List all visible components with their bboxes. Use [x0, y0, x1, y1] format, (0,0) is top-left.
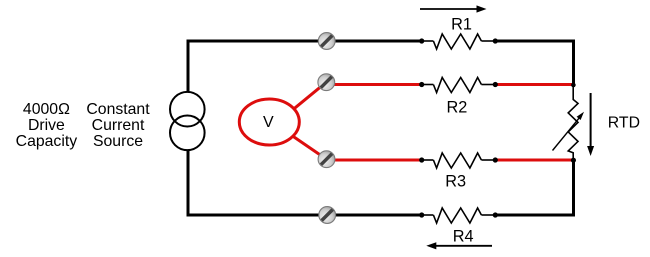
- RTD variable-arrow: [553, 112, 585, 151]
- voltmeter V1: [239, 99, 299, 145]
- terminal 3 (screw): [318, 151, 335, 168]
- svg-text:Drive: Drive: [28, 117, 65, 134]
- junction dot node top of RTD: [571, 83, 576, 88]
- terminal 4 (screw): [319, 207, 336, 224]
- current direction arrow bottom (below R4): [426, 242, 492, 249]
- wire red sense lead from V+ to terminal 2: [294, 82, 326, 109]
- svg-text:Source: Source: [93, 133, 143, 150]
- svg-text:R1: R1: [451, 16, 472, 34]
- resistor R1: [419, 34, 498, 49]
- svg-text:R4: R4: [453, 227, 474, 245]
- svg-text:Capacity: Capacity: [16, 133, 78, 150]
- label 4000ohm drive capacity: [16, 101, 78, 150]
- svg-text:Current: Current: [92, 117, 145, 134]
- wire red sense lead from V- to terminal 3: [293, 136, 327, 159]
- terminal 2 (screw): [318, 74, 335, 91]
- junction dot node bottom of RTD: [571, 158, 576, 163]
- wire top-right (R1 to right rail corner): [496, 41, 574, 85]
- wire red row3 left segment: [326, 159, 420, 162]
- svg-text:R2: R2: [446, 98, 467, 116]
- resistor RTD (variable resistor, vertical): [568, 85, 578, 160]
- wire top-left (left rail top + top rail to R1): [188, 41, 420, 91]
- svg-text:V: V: [263, 114, 274, 131]
- terminal 1 (screw): [318, 33, 335, 50]
- wire red row2 right segment: [498, 83, 574, 86]
- svg-text:R3: R3: [445, 172, 466, 190]
- svg-text:Constant: Constant: [86, 101, 150, 118]
- wire red row2 left segment: [326, 83, 420, 86]
- resistor R2: [419, 78, 498, 93]
- svg-text:4000Ω: 4000Ω: [23, 101, 70, 118]
- resistor R4: [419, 208, 498, 223]
- resistor R3: [419, 153, 498, 168]
- current direction arrow top (above R1): [420, 5, 487, 12]
- wire red row3 right segment: [498, 159, 574, 162]
- wire bottom-left (left rail bottom + bottom rail to R4): [188, 150, 420, 215]
- current direction arrow beside RTD (downward): [587, 93, 594, 156]
- current source U1 (constant current source, two overlapping circles): [170, 92, 205, 150]
- label constant current source: [86, 101, 150, 150]
- wire bottom-right (R4 to right rail up to RTD): [496, 160, 574, 215]
- svg-text:RTD: RTD: [608, 115, 640, 132]
